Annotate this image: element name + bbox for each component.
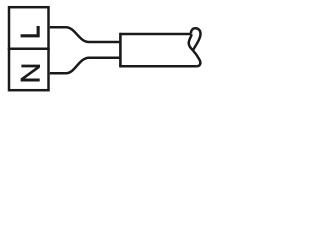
terminal block outline <box>9 7 49 90</box>
label N (terminal N, rotated 90deg CCW, looks like Z) <box>21 66 40 80</box>
wire from terminal L <box>50 27 120 42</box>
cable jacket bottom edge <box>120 65 197 68</box>
wire from terminal N <box>50 58 120 74</box>
label L (terminal L, rotated 90deg CCW) <box>21 26 39 36</box>
cable jacket left end <box>119 33 122 68</box>
cable cut end loop <box>191 28 201 50</box>
cable jacket top edge <box>120 33 191 36</box>
cable cut end serpentine <box>189 34 201 66</box>
terminal divider <box>8 47 50 50</box>
